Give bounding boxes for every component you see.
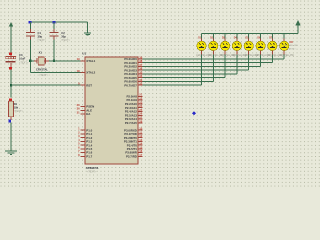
LED D7 — [271, 34, 273, 39]
wire C3 to R1 / RST node — [10, 63, 12, 67]
wire — [260, 54, 262, 66]
node marker blue (R1 bottom) — [8, 120, 11, 123]
pin 4 P1.3 — [81, 140, 86, 142]
svg-text:C3: C3 — [19, 53, 23, 57]
pin 14 P3.4/T0 — [138, 144, 143, 146]
svg-text:22: 22 — [139, 97, 142, 101]
node pin-end marker (C3 bottom) — [9, 67, 12, 70]
svg-text:36: 36 — [139, 67, 142, 71]
svg-text:<TEXT>: <TEXT> — [37, 39, 47, 42]
IC U1 AT89C51 (MCU body) — [85, 57, 138, 164]
svg-text:P2.7/A15: P2.7/A15 — [125, 121, 137, 125]
wire C1 down to crystal-left / XTAL2 — [29, 37, 31, 40]
svg-text:37: 37 — [139, 63, 142, 67]
pin 1 P1.0 — [81, 129, 86, 131]
pin 23 P2.2/A10 — [138, 103, 143, 105]
svg-text:30p: 30p — [38, 35, 43, 39]
svg-text:<TEXT>: <TEXT> — [61, 39, 71, 42]
pin 22 P2.1/A9 — [138, 99, 143, 101]
svg-text:C1: C1 — [38, 31, 42, 35]
pin 24 P2.3/A11 — [138, 107, 143, 109]
svg-text:C2: C2 — [61, 31, 65, 35]
svg-text:32: 32 — [139, 82, 142, 86]
node marker blue (C1 top) — [29, 21, 32, 24]
svg-text:10uF: 10uF — [19, 57, 26, 61]
pin 16 P3.6/WR — [138, 152, 143, 154]
LED D6 — [260, 34, 262, 39]
node junction (crystal left) — [29, 60, 31, 62]
svg-text:15: 15 — [139, 145, 142, 149]
pin 6 P1.5 — [81, 148, 86, 150]
svg-text:25: 25 — [139, 108, 142, 112]
svg-text:23: 23 — [139, 100, 142, 104]
wire — [212, 54, 214, 81]
svg-text:34: 34 — [139, 74, 142, 78]
pin 30 ALE — [81, 109, 86, 111]
pin 36 P0.3/AD3 — [138, 69, 143, 71]
node pin-end marker (C3 top) — [9, 52, 12, 55]
svg-text:XTAL1: XTAL1 — [86, 59, 95, 63]
svg-text:CRYSTAL: CRYSTAL — [36, 67, 48, 71]
svg-text:<TEXT>: <TEXT> — [39, 74, 49, 77]
pin 11 P3.1/TXD — [138, 133, 143, 135]
capacitor C3 — [6, 57, 16, 59]
LED D4 — [236, 34, 238, 39]
wire — [271, 54, 273, 62]
pin 33 P0.6/AD6 — [138, 80, 143, 82]
ground (cap rail) — [84, 32, 91, 34]
pin 3 P1.2 — [81, 137, 86, 139]
pin 39 P0.0/AD0 — [138, 58, 143, 60]
pin 34 P0.5/AD5 — [138, 77, 143, 79]
pin 12 P3.2/INT0 — [138, 137, 143, 139]
svg-text:AT89C51: AT89C51 — [86, 166, 99, 170]
svg-text:39: 39 — [139, 55, 142, 59]
power VCC symbol (left) — [9, 22, 14, 27]
svg-text:10: 10 — [139, 127, 142, 131]
node marker blue (C2 top) — [53, 21, 56, 24]
crystal X1 — [30, 60, 34, 62]
svg-text:19: 19 — [77, 57, 80, 61]
node marker blue (floating) — [192, 111, 196, 115]
svg-text:16: 16 — [139, 149, 142, 153]
svg-text:35: 35 — [139, 70, 142, 74]
wire R1 to ground — [10, 122, 12, 151]
wire C2 down to XTAL1 wire — [53, 37, 55, 40]
node pin-end marker (R1 top) — [9, 99, 12, 102]
pin 31 EA — [81, 113, 86, 115]
svg-text:27: 27 — [139, 116, 142, 120]
pin 26 P2.5/A13 — [138, 114, 143, 116]
svg-text:X1: X1 — [39, 50, 43, 54]
svg-text:<TEXT>: <TEXT> — [87, 170, 97, 174]
svg-text:30: 30 — [77, 107, 80, 111]
ground (below R1) — [5, 150, 17, 152]
pin 25 P2.4/A12 — [138, 111, 143, 113]
svg-text:21: 21 — [139, 93, 142, 97]
LED D1 — [201, 34, 203, 39]
pin 37 P0.2/AD2 — [138, 65, 143, 67]
pin 27 P2.6/A14 — [138, 118, 143, 120]
svg-text:31: 31 — [77, 110, 80, 114]
wire crystal right to XTAL1 — [49, 60, 81, 62]
svg-text:D8: D8 — [290, 40, 294, 44]
wire LED rail — [202, 33, 299, 35]
LED D2 — [212, 34, 214, 39]
wire — [201, 54, 203, 85]
wire cap rail — [30, 21, 87, 23]
svg-text:P1.7: P1.7 — [86, 155, 92, 159]
pin 2 P1.1 — [81, 133, 86, 135]
pin 35 P0.4/AD4 — [138, 73, 143, 75]
svg-text:<TEXT>: <TEXT> — [288, 47, 297, 50]
pin 38 P0.1/AD1 — [138, 62, 143, 64]
pin 29 PSEN — [81, 106, 86, 108]
LED D3 — [224, 34, 226, 39]
pin 5 P1.4 — [81, 144, 86, 146]
pin 21 P2.0/A8 — [138, 95, 143, 97]
svg-text:XTAL2: XTAL2 — [86, 71, 95, 75]
svg-text:29: 29 — [77, 103, 80, 107]
svg-text:LED-YELLOW: LED-YELLOW — [279, 55, 295, 57]
pin 19 XTAL1 — [81, 60, 86, 62]
wire — [10, 55, 12, 56]
svg-text:38: 38 — [139, 59, 142, 63]
wire to RST pin — [11, 84, 81, 86]
svg-text:<TEXT>: <TEXT> — [14, 110, 24, 113]
svg-text:28: 28 — [139, 119, 142, 123]
svg-text:P3.7/RD: P3.7/RD — [126, 155, 137, 159]
svg-text:30p: 30p — [61, 35, 66, 39]
svg-text:P0.7/AD7: P0.7/AD7 — [124, 83, 137, 87]
svg-text:R1: R1 — [14, 102, 18, 106]
pin 8 P1.7 — [81, 155, 86, 157]
svg-text:14: 14 — [139, 142, 142, 146]
pin 7 P1.6 — [81, 152, 86, 154]
pin 17 P3.7/RD — [138, 155, 143, 157]
node junction (crystal right) — [53, 60, 55, 62]
capacitor C2 — [53, 22, 55, 29]
pin 10 P3.0/RXD — [138, 129, 143, 131]
LED D5 — [248, 34, 250, 39]
svg-text:24: 24 — [139, 104, 142, 108]
svg-text:10k: 10k — [14, 105, 19, 109]
svg-text:33: 33 — [139, 78, 142, 82]
pin 15 P3.5/T1 — [138, 148, 143, 150]
resistor R1 — [10, 100, 12, 101]
wire — [283, 54, 285, 59]
svg-text:11: 11 — [139, 130, 142, 134]
svg-text:12: 12 — [139, 134, 142, 138]
wire — [248, 54, 250, 70]
pin 9 RST — [81, 84, 86, 86]
pin 13 P3.3/INT1 — [138, 140, 143, 142]
pin 18 XTAL2 — [81, 71, 86, 73]
wire — [236, 54, 238, 74]
svg-text:17: 17 — [139, 153, 142, 157]
svg-text:18: 18 — [77, 69, 80, 73]
wire rail to ground — [87, 22, 89, 33]
svg-text:LED-YELLOW: LED-YELLOW — [284, 45, 299, 47]
pin 32 P0.7/AD7 — [138, 84, 143, 86]
pin 28 P2.7/A15 — [138, 122, 143, 124]
svg-text:26: 26 — [139, 112, 142, 116]
wire — [224, 54, 226, 77]
svg-text:RST: RST — [86, 83, 92, 87]
power VCC symbol (LED rail) — [295, 20, 300, 25]
svg-text:13: 13 — [139, 138, 142, 142]
capacitor C1 — [29, 22, 31, 29]
svg-text:<TEXT>: <TEXT> — [19, 61, 29, 64]
svg-text:U1: U1 — [82, 52, 86, 56]
node RST junction — [10, 84, 12, 86]
LED D8 — [283, 34, 285, 39]
